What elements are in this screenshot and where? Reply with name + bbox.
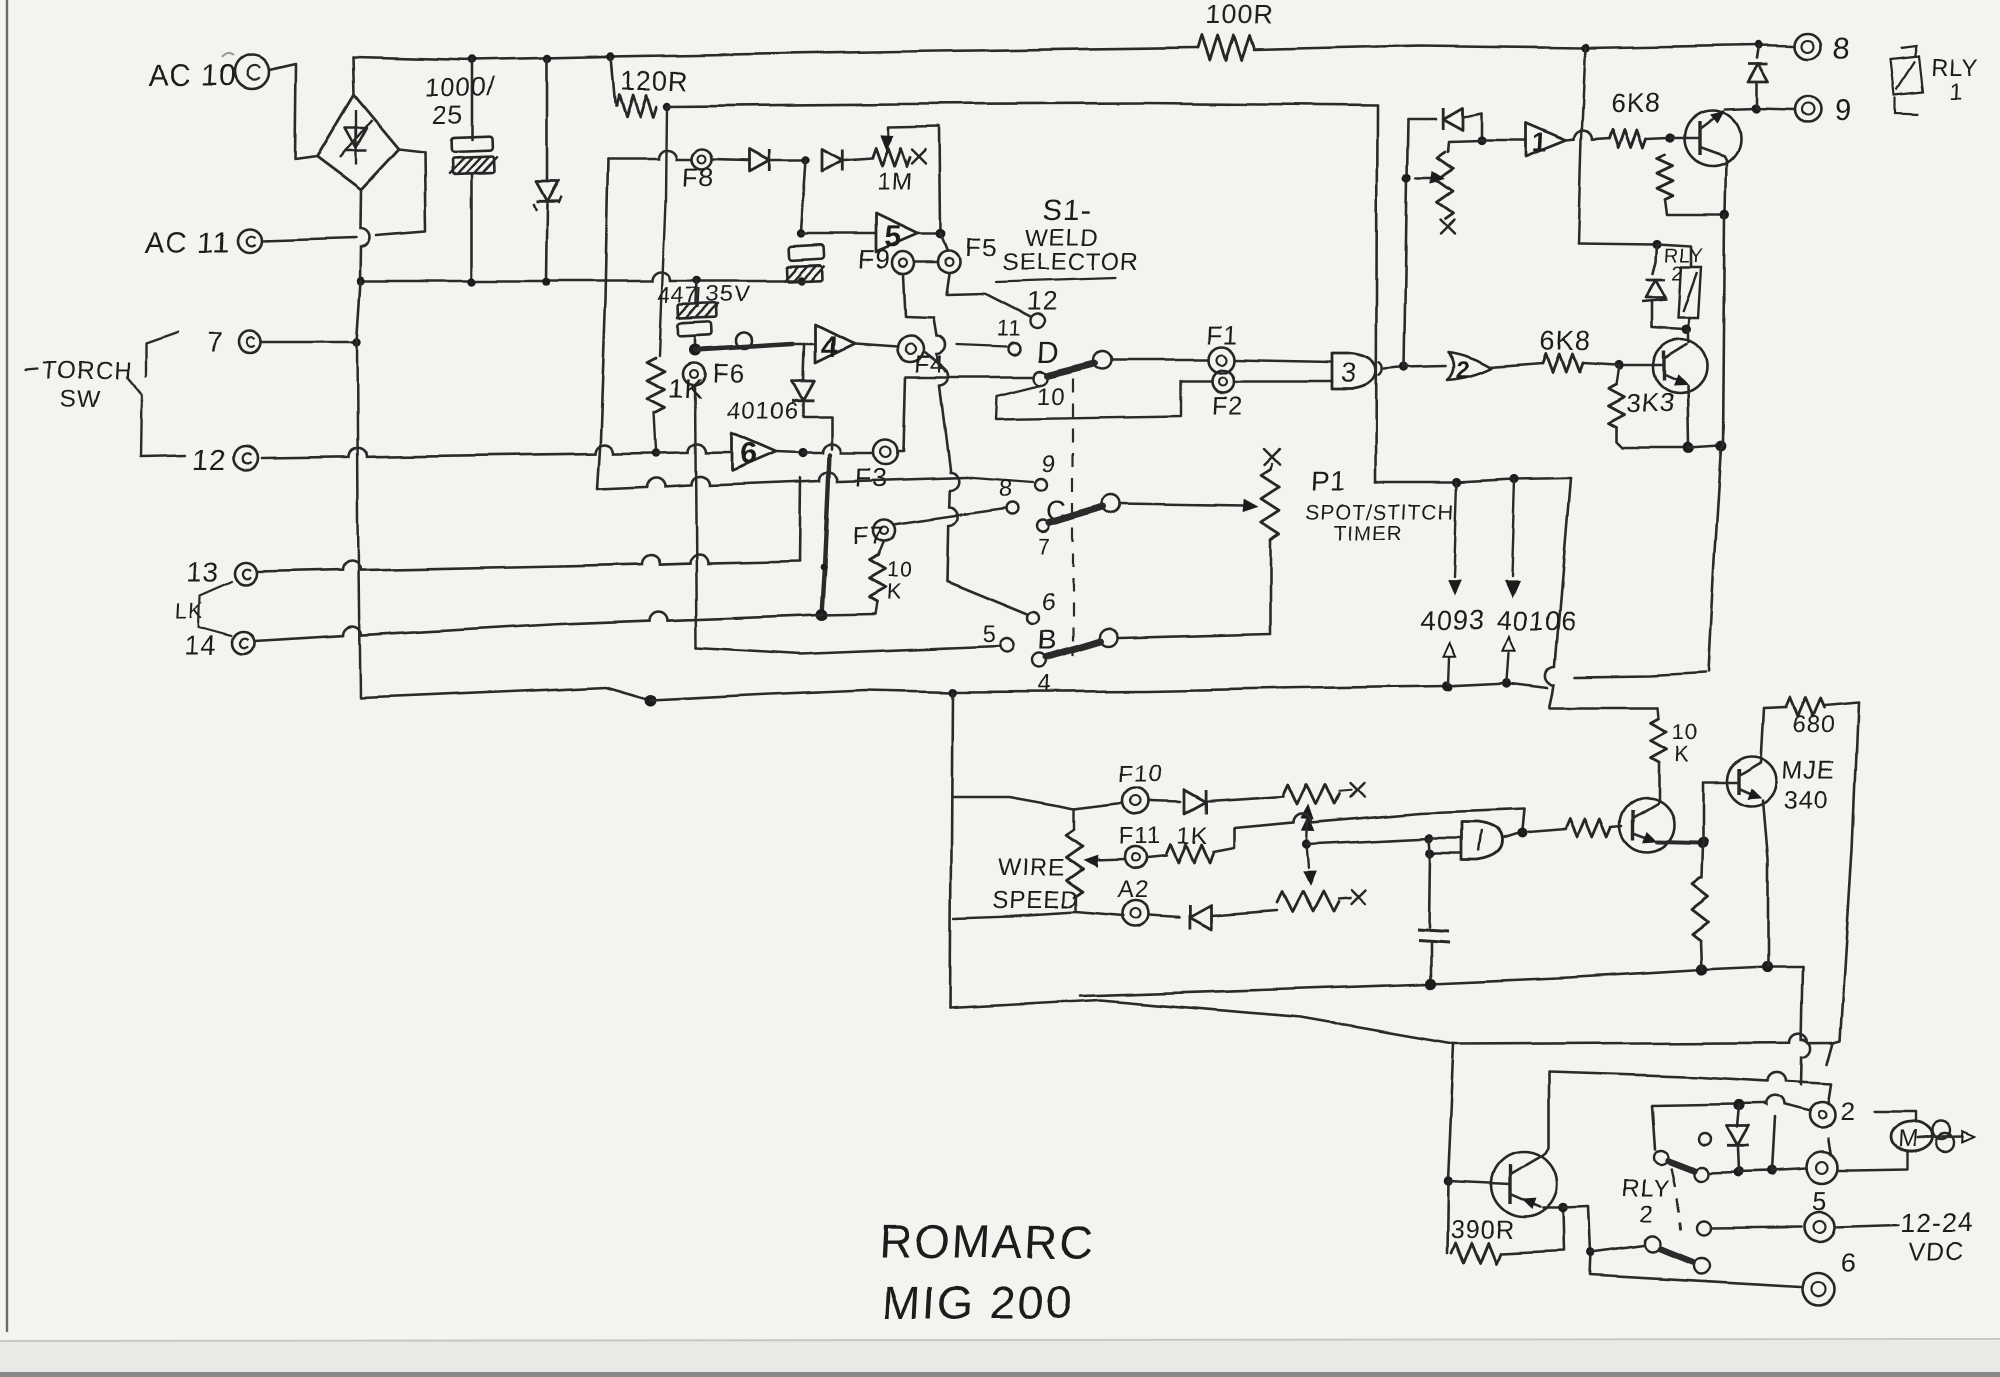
wire F3 up to D-pivot row <box>898 377 906 451</box>
svg-text:2: 2 <box>1840 1096 1857 1126</box>
diode D11 (across contacts) <box>1733 1099 1744 1110</box>
svg-text:F1: F1 <box>1206 320 1240 350</box>
svg-text:WIRE: WIRE <box>998 855 1066 882</box>
svg-text:6: 6 <box>740 438 759 471</box>
terminal 8 <box>1795 33 1821 59</box>
contact arm lower <box>1591 1246 1644 1253</box>
svg-text:340: 340 <box>1784 786 1830 814</box>
wire to contact 6 <box>948 581 1028 614</box>
op-amp 5 (40106) <box>876 214 918 252</box>
terminal F6 <box>683 363 705 385</box>
cap C2 under diodes <box>801 160 806 232</box>
svg-text:13: 13 <box>186 557 221 588</box>
switch arm D <box>1033 371 1047 385</box>
trimmer R down (motor min) <box>1277 892 1338 912</box>
svg-text:35V: 35V <box>706 281 751 307</box>
diode D10 <box>1076 912 1123 916</box>
vertical B down to AND node <box>1404 119 1408 367</box>
svg-text:25: 25 <box>432 100 464 130</box>
svg-text:F5: F5 <box>965 232 999 262</box>
svg-text:M: M <box>1897 1126 1919 1153</box>
svg-text:F11: F11 <box>1118 823 1162 850</box>
svg-text:447: 447 <box>658 282 701 308</box>
terminal F1 <box>1209 347 1235 373</box>
diode D6 branch <box>1408 118 1436 121</box>
terminal F7 <box>873 519 895 541</box>
transistor Q1 <box>1684 110 1740 166</box>
svg-text:B: B <box>1038 625 1059 656</box>
resistor 6K8 pull (Q1 base-emitter) <box>1657 155 1673 200</box>
trimmer R up (motor max) <box>1284 784 1340 804</box>
svg-text:AC 11: AC 11 <box>144 226 232 259</box>
terminal 2 <box>1809 1102 1835 1128</box>
svg-text:12: 12 <box>192 445 228 477</box>
svg-text:100R: 100R <box>1205 0 1275 30</box>
bridge rectifier BR1 <box>317 95 399 190</box>
vertical bus x357 <box>357 281 361 342</box>
svg-text:390R: 390R <box>1450 1216 1515 1244</box>
gate 6 (40106) <box>732 433 776 471</box>
contact arm upper (RLY2 no) <box>1654 1150 1668 1164</box>
NO contact <box>1698 1133 1710 1145</box>
resistor 100R <box>1198 36 1253 60</box>
svg-text:120R: 120R <box>620 66 690 96</box>
resistor Q3 base <box>1529 829 1566 832</box>
svg-text:7: 7 <box>206 327 224 358</box>
bottom rail of supply (y 281) <box>361 272 801 281</box>
terminal F10 <box>952 797 1074 809</box>
svg-text:6K8: 6K8 <box>1610 88 1663 118</box>
svg-text:SPEED: SPEED <box>992 887 1080 914</box>
svg-text:1: 1 <box>1532 128 1549 158</box>
wire-speed box left edge <box>950 692 952 1008</box>
trimpot (op-amp 1 input) <box>1477 136 1486 145</box>
wire bridge bottom down <box>360 190 370 281</box>
svg-text:9: 9 <box>1834 94 1853 127</box>
svg-text:SW: SW <box>60 385 102 412</box>
svg-text:VDC: VDC <box>1908 1238 1965 1266</box>
svg-text:3K3: 3K3 <box>1626 388 1677 418</box>
svg-text:10: 10 <box>1036 383 1066 410</box>
zener D8 (RLY2) <box>1653 244 1657 274</box>
resistor 120R <box>611 57 615 103</box>
svg-text:1K: 1K <box>1176 823 1209 850</box>
resistor 3K3 <box>1616 365 1619 384</box>
gate 1 <box>1462 822 1503 860</box>
node + diode D3 <box>772 159 806 162</box>
resistor 680 <box>1786 698 1824 716</box>
switch arm B <box>1100 629 1118 647</box>
diode D7 to top bus <box>1757 45 1759 58</box>
svg-text:2: 2 <box>1672 263 1685 285</box>
wafer/box vertical from F6 down <box>695 385 697 648</box>
svg-text:RLY: RLY <box>1930 55 1979 82</box>
resistor 1K (F11) <box>1147 856 1166 858</box>
svg-text:K: K <box>886 580 903 605</box>
svg-text:1K: 1K <box>668 374 705 404</box>
svg-text:40106: 40106 <box>1496 606 1578 636</box>
terminal 5 <box>1805 1212 1835 1242</box>
cap C5 <box>1429 838 1430 927</box>
gate 4 (40106) <box>815 325 854 363</box>
contact 7 / C arm <box>1037 520 1049 532</box>
svg-text:RLY: RLY <box>1622 1175 1671 1202</box>
op-amp 1 <box>1482 140 1526 143</box>
svg-text:1000/: 1000/ <box>424 72 496 102</box>
contact 6 <box>1028 612 1040 624</box>
contact 11 <box>957 345 1006 347</box>
contact 5 + wire <box>697 646 1000 654</box>
svg-text:A2: A2 <box>1116 877 1149 904</box>
4093 40106 supply arrows <box>1454 482 1457 578</box>
svg-text:4093: 4093 <box>1420 606 1486 636</box>
svg-text:12: 12 <box>1026 286 1058 316</box>
svg-text:4: 4 <box>820 331 839 364</box>
svg-text:MIG 200: MIG 200 <box>881 1276 1074 1328</box>
svg-text:K: K <box>1674 742 1691 767</box>
diode D2 <box>712 159 750 160</box>
svg-text:2: 2 <box>1640 1201 1656 1228</box>
svg-text:F7: F7 <box>852 520 886 550</box>
terminal F8 <box>692 149 712 169</box>
pot P1 spot/stitch <box>1264 449 1280 465</box>
resistor 6K8 (Q2 base) <box>1490 363 1543 367</box>
svg-text:F6: F6 <box>712 358 746 388</box>
timer box bottom path <box>1376 478 1570 482</box>
svg-text:WELD: WELD <box>1025 225 1100 252</box>
wire 12 row <box>262 445 652 458</box>
svg-text:F2: F2 <box>1212 390 1246 420</box>
svg-text:1: 1 <box>1948 79 1964 106</box>
transistor Q3 <box>1620 798 1674 852</box>
svg-text:SPOT/STITCH: SPOT/STITCH <box>1305 501 1456 524</box>
bold vertical (gate net) <box>822 455 830 615</box>
capacitor C1 1000/25 <box>471 60 474 140</box>
svg-text:5: 5 <box>1812 1186 1829 1216</box>
top supply bus <box>353 48 1198 60</box>
svg-text:5: 5 <box>982 621 998 648</box>
svg-text:F8: F8 <box>682 162 716 192</box>
wire bridge top to top bus <box>353 57 354 95</box>
motor M <box>1890 1122 1932 1152</box>
motor box left edge <box>1448 1044 1454 1181</box>
contact 9 <box>966 477 1034 482</box>
svg-text:P1: P1 <box>1310 465 1348 496</box>
svg-text:3: 3 <box>1340 357 1358 388</box>
gate 4 output to F4 <box>854 344 897 347</box>
svg-text:11: 11 <box>996 316 1022 341</box>
svg-text:40106: 40106 <box>727 398 800 425</box>
svg-text:6K8: 6K8 <box>1540 326 1593 356</box>
relay contact box <box>1652 1103 1764 1149</box>
svg-text:680: 680 <box>1792 711 1836 738</box>
inner box left edge <box>597 159 608 489</box>
vertical 680 to motor box corner <box>1833 702 1858 1042</box>
wire C arm to P1 wiper <box>1121 504 1244 506</box>
svg-text:9: 9 <box>1042 451 1058 478</box>
relay coil RLY2 <box>1657 244 1692 267</box>
resistor 10K (timer) <box>1658 708 1659 719</box>
terminal F11 <box>1124 847 1146 869</box>
AND gate 3 <box>1331 353 1376 389</box>
wire F9 down / wafer left edge <box>903 275 933 318</box>
wire F5 to contact 12 <box>946 274 1030 317</box>
svg-text:MJE: MJE <box>1782 756 1836 784</box>
contact 8 <box>1007 502 1019 514</box>
Q5 collector wire to terminal 2 <box>1546 1072 1768 1153</box>
relay RLY1 sketch <box>1900 47 1916 58</box>
transistor Q2 <box>1688 331 1691 343</box>
wire-speed pot <box>1073 809 1075 830</box>
wire AC11 to bridge right <box>262 238 356 241</box>
dashed gang linkage <box>1072 378 1074 657</box>
svg-text:SELECTOR: SELECTOR <box>1002 249 1140 276</box>
svg-text:S1-: S1- <box>1042 194 1093 227</box>
bold wire C3 node to gate 4 <box>689 344 701 356</box>
zener diode D1 <box>546 59 549 180</box>
terminal 14 <box>233 632 255 654</box>
transistor Q5 <box>1491 1151 1557 1217</box>
svg-text:4: 4 <box>1038 671 1054 698</box>
collector wire Q3 to timer 10K <box>1658 800 1659 803</box>
terminal 7 <box>239 331 261 353</box>
svg-text:1M: 1M <box>876 168 914 196</box>
svg-text:6: 6 <box>1840 1248 1857 1278</box>
svg-text:8: 8 <box>999 475 1015 502</box>
trim wiper link + arrows <box>1303 818 1314 830</box>
resistor 10K (F7) <box>878 541 884 556</box>
wire 14 row <box>255 624 560 641</box>
row A (9-wire) <box>597 476 795 489</box>
svg-text:12-24: 12-24 <box>1900 1208 1976 1238</box>
box bottom / motor box top edge <box>950 1000 1454 1044</box>
terminal 1 <box>1806 1152 1838 1184</box>
svg-text:14: 14 <box>184 630 219 661</box>
terminal AC11 <box>238 229 262 253</box>
wire 13 row <box>257 561 560 572</box>
terminal F3 <box>874 440 898 464</box>
vertical A from second bus <box>1376 105 1377 482</box>
pot 1M with wiper arrow <box>872 148 910 166</box>
svg-text:2: 2 <box>1456 357 1472 384</box>
svg-text:ROMARC: ROMARC <box>877 1216 1096 1268</box>
diode D9 <box>1149 801 1180 802</box>
wire term2 drop <box>1771 1118 1774 1171</box>
vertical from top bus node via op-amp to RLY2 <box>1578 48 1585 243</box>
wire pivot 10 path <box>995 381 1212 419</box>
line a: 1K to gate1 output <box>1234 813 1420 828</box>
right vertical Q1emitter to bus <box>1723 215 1725 446</box>
wire AC10 to bridge <box>269 64 317 160</box>
contact 5 row <box>1697 1221 1711 1235</box>
svg-text:AC 10: AC 10 <box>148 60 238 93</box>
terminal AC10 <box>235 55 269 89</box>
terminal 6 <box>1802 1273 1834 1305</box>
terminal F9 <box>892 252 914 274</box>
inverter 2 <box>1404 366 1446 367</box>
transistor MJE340 <box>1703 782 1738 843</box>
line b: trim node to gate1 inputs <box>1307 838 1429 844</box>
wire D-arm to F1 <box>1111 359 1209 362</box>
resistor Q3 emitter to rail <box>1702 843 1703 878</box>
contact 12 <box>1030 314 1044 328</box>
terminal A2 <box>954 898 1076 918</box>
wire gate6 out to F3 <box>803 444 872 453</box>
svg-text:8: 8 <box>1832 32 1851 65</box>
second bus (y 106) to right corner <box>667 103 1377 106</box>
terminal F5 <box>938 251 960 273</box>
terminal 12 <box>234 446 258 470</box>
svg-text:TORCH: TORCH <box>42 357 133 384</box>
svg-text:F9: F9 <box>858 244 892 274</box>
bottom bus <box>360 687 650 700</box>
svg-text:TIMER: TIMER <box>1333 522 1405 545</box>
svg-text:7: 7 <box>1037 534 1052 559</box>
terminal F4 <box>897 336 923 362</box>
svg-text:F3: F3 <box>855 462 889 492</box>
terminal 9 <box>1757 108 1794 109</box>
wire F7 to contact 8 <box>893 508 1006 524</box>
wire 120R node down to 1K <box>608 150 690 159</box>
diode D4 below gate 4 <box>803 345 804 380</box>
svg-text:D: D <box>1036 336 1060 369</box>
svg-text:F10: F10 <box>1118 761 1164 788</box>
resistor 6K8 (op-amp1 out) <box>1609 130 1646 148</box>
terminal F2 <box>1213 370 1235 392</box>
svg-text:6: 6 <box>1042 589 1058 616</box>
terminal 13 <box>235 563 257 585</box>
capacitor C3 447/35V <box>697 280 698 303</box>
1K resistor <box>647 358 665 413</box>
lower rail of wire-speed box <box>1080 967 1803 996</box>
